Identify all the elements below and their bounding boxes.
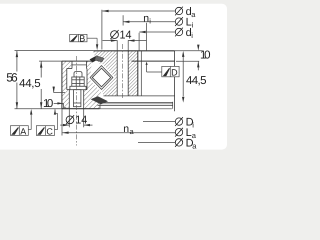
counterbore walls [71,61,73,68]
56 extension top [15,50,94,52]
inner ring left edge [61,61,63,109]
roller diamond [90,66,113,90]
svg-text:44,5: 44,5 [19,78,40,90]
10 left down arrow [53,87,55,93]
inner hole walls [68,90,70,109]
centerlines [76,44,122,146]
outer ring hatched body [93,51,138,96]
bottom label leaders [143,121,175,123]
roller raceway clearance [89,64,115,91]
bottom extension [15,108,62,110]
slash symbols in datum boxes [12,35,169,134]
view bore line [140,51,142,96]
mounting face line lower [98,104,173,106]
B leader arrow down [96,44,98,50]
44,5 ext top [39,60,62,62]
D datum arrow up [146,62,148,65]
D box [162,66,179,76]
bottom dia14 [66,114,88,126]
svg-text:B: B [79,33,85,43]
right label block [175,6,197,150]
top dia14 dim [103,40,118,42]
view right edge [174,51,176,112]
44,5 arrows [40,61,42,68]
double arrow line [182,53,184,96]
n_i n_a [123,13,151,136]
C leader arrow up [54,109,56,115]
svg-text:10: 10 [200,49,211,61]
inner ring lower-right edge [99,104,101,109]
10 left right arrow [57,102,63,104]
right 44,5 arrow tail [197,61,199,70]
counterbore cut (white) [72,61,87,68]
label dia L_a [175,127,197,140]
inner ring hatched body [62,61,102,109]
mounting face line upper [103,102,173,104]
44,5 dim line [40,61,42,77]
outer ring bottom edge [104,95,175,97]
d_i arrow [139,31,145,33]
bolt hole centerline (inner ring) [75,56,77,146]
bottom dia14 arrows [63,124,69,126]
datum letters [20,33,178,136]
d_i leader + ext [139,31,175,33]
bolt hole centerline (outer ring) [122,44,124,99]
label dia D_a [175,137,197,150]
56 dim line [16,51,18,72]
svg-text:56: 56 [6,70,18,84]
svg-text:n: n [123,123,129,135]
outer hole walls [116,51,118,96]
outer ring right edge / view left edge [137,51,139,96]
C box [36,126,54,136]
bottom dia14 dim [60,124,69,126]
A leader arrow up [30,109,32,115]
svg-text:C: C [46,127,53,137]
D leader [146,65,148,72]
56 arrows [16,51,18,58]
outer ring top surface [93,50,174,52]
top dia14 [110,30,132,42]
label dia d_a [175,6,196,19]
n_a dim [62,132,175,134]
bottom surface [62,108,100,110]
label dia d_i [175,27,193,40]
d_a leader + ext [101,10,103,50]
outer bolt hole cut [117,51,128,96]
svg-text:A: A [20,127,26,137]
washer seat [67,89,87,91]
right 10 arrows [197,45,199,51]
10 left [53,87,55,93]
double arrow up/down [182,51,184,57]
top dia14 arrows [111,39,117,41]
label dia D_i [175,117,194,130]
svg-text:44,5: 44,5 [186,75,207,87]
n_i left arrow [123,21,129,23]
L_i ext [146,23,148,51]
svg-text:10: 10 [43,98,53,110]
inner ring top line across right view [132,60,175,62]
n_i dim [123,21,175,23]
page background [0,0,229,157]
upper seal (dark wedge) [90,56,99,62]
svg-text:14: 14 [120,30,133,42]
bolt [70,72,86,107]
bottom face extension line [100,108,172,110]
d_a arrow [102,10,108,12]
A box [11,126,29,136]
white drawing card [0,4,227,150]
lower seal [91,96,108,104]
B box [70,34,87,41]
n_a arrows [62,132,68,134]
right 10 ext [176,60,199,62]
inner ring top surface [62,60,92,62]
svg-text:D: D [171,68,178,78]
label dia L_i [175,17,194,30]
right end tick [172,102,174,109]
svg-text:14: 14 [75,114,88,126]
